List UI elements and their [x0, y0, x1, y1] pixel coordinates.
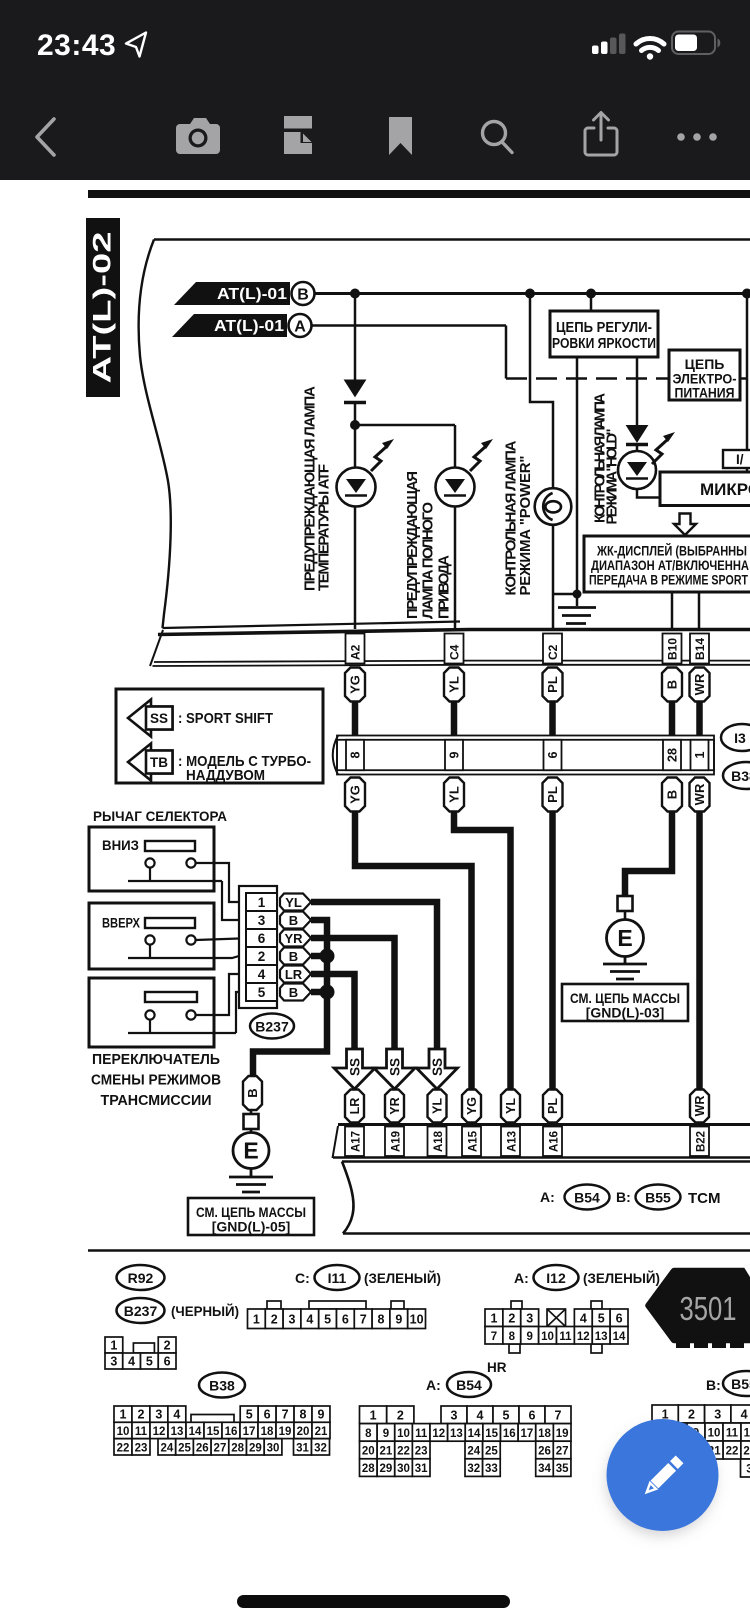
svg-text:SS: SS: [348, 1058, 363, 1076]
svg-text:ТРАНСМИССИИ: ТРАНСМИССИИ: [101, 1093, 212, 1109]
svg-text:YL: YL: [447, 676, 462, 693]
svg-text:ПЕРЕКЛЮЧАТЕЛЬ: ПЕРЕКЛЮЧАТЕЛЬ: [92, 1052, 220, 1068]
svg-text:ВНИЗ: ВНИЗ: [102, 838, 139, 853]
svg-text:12: 12: [432, 1428, 445, 1440]
svg-text:4: 4: [477, 1408, 484, 1422]
svg-text:SS: SS: [388, 1058, 403, 1076]
svg-text:YL: YL: [285, 895, 302, 910]
svg-text:8: 8: [365, 1428, 372, 1440]
svg-text:РЕЖИМА "HOLD": РЕЖИМА "HOLD": [605, 429, 621, 525]
svg-text:7: 7: [555, 1408, 562, 1422]
svg-text:34: 34: [538, 1463, 551, 1475]
svg-text:6: 6: [616, 1311, 623, 1325]
svg-text:22: 22: [726, 1446, 739, 1458]
svg-text:4: 4: [128, 1355, 135, 1369]
svg-text:YG: YG: [348, 675, 363, 694]
svg-text:AT(L)-01: AT(L)-01: [217, 286, 287, 303]
svg-text:2: 2: [258, 949, 266, 964]
svg-text:8: 8: [349, 751, 363, 758]
svg-text:YL: YL: [447, 786, 462, 803]
svg-text:6: 6: [258, 931, 266, 946]
svg-text:13: 13: [450, 1428, 463, 1440]
svg-text:A:: A:: [514, 1270, 529, 1286]
svg-text:3: 3: [258, 913, 266, 928]
svg-text:B237: B237: [255, 1019, 289, 1035]
svg-text:6: 6: [164, 1355, 171, 1369]
svg-text:YG: YG: [465, 1097, 479, 1115]
svg-text:B54: B54: [456, 1377, 482, 1393]
svg-text:4: 4: [580, 1311, 587, 1325]
svg-text:10: 10: [410, 1312, 424, 1326]
svg-text:I11: I11: [328, 1270, 347, 1286]
svg-text:23: 23: [743, 1446, 750, 1458]
svg-text:31: 31: [415, 1463, 428, 1475]
svg-text:LR: LR: [348, 1098, 362, 1115]
svg-text:28: 28: [231, 1442, 244, 1454]
svg-text:3: 3: [746, 1464, 750, 1476]
svg-text:B10: B10: [666, 638, 680, 660]
svg-text:18: 18: [538, 1428, 551, 1440]
svg-text:1: 1: [258, 895, 266, 910]
svg-text:2: 2: [688, 1408, 695, 1422]
svg-text:5: 5: [258, 985, 266, 1000]
svg-text:B237: B237: [124, 1303, 158, 1319]
svg-text:11: 11: [559, 1331, 572, 1343]
svg-text:B: B: [289, 913, 298, 928]
svg-text:3: 3: [714, 1408, 721, 1422]
svg-text:НАДДУВОМ: НАДДУВОМ: [186, 767, 265, 784]
svg-text:B22: B22: [696, 1131, 708, 1152]
svg-text:4: 4: [258, 967, 266, 982]
svg-text:2: 2: [271, 1312, 278, 1326]
svg-text:12: 12: [744, 1428, 750, 1440]
svg-text:5: 5: [324, 1312, 331, 1326]
svg-text:HR: HR: [487, 1360, 507, 1375]
svg-text:AT(L)-02: AT(L)-02: [89, 232, 117, 384]
svg-text:B14: B14: [693, 638, 707, 660]
svg-text:20: 20: [297, 1426, 310, 1438]
svg-text:13: 13: [171, 1426, 184, 1438]
svg-text:22: 22: [117, 1442, 130, 1454]
svg-text:B:: B:: [706, 1377, 721, 1393]
svg-text:AT(L)-01: AT(L)-01: [214, 318, 284, 335]
svg-text:30: 30: [267, 1442, 280, 1454]
svg-text:5: 5: [246, 1408, 253, 1422]
svg-text:22: 22: [397, 1446, 410, 1458]
svg-text:ПЕРЕДАЧА В РЕЖИМЕ SPORT: ПЕРЕДАЧА В РЕЖИМЕ SPORT: [589, 573, 749, 588]
svg-text:A2: A2: [349, 644, 363, 660]
svg-text:29: 29: [380, 1463, 393, 1475]
svg-text:24: 24: [467, 1446, 480, 1458]
svg-text:32: 32: [314, 1442, 327, 1454]
svg-text:[GND(L)-03]: [GND(L)-03]: [586, 1005, 665, 1021]
svg-text:10: 10: [708, 1428, 721, 1440]
svg-text:26: 26: [196, 1442, 209, 1454]
svg-text:B: B: [665, 790, 680, 799]
svg-text:5: 5: [146, 1355, 153, 1369]
svg-text:32: 32: [467, 1463, 480, 1475]
svg-text:6: 6: [529, 1408, 536, 1422]
svg-text:A17: A17: [351, 1131, 363, 1152]
svg-text:РЫЧАГ СЕЛЕКТОРА: РЫЧАГ СЕЛЕКТОРА: [93, 808, 227, 824]
svg-text:WR: WR: [692, 783, 707, 805]
svg-text:9: 9: [317, 1408, 324, 1422]
svg-text:A19: A19: [391, 1131, 403, 1152]
svg-text:C:: C:: [295, 1270, 310, 1286]
svg-text:2: 2: [508, 1311, 515, 1325]
svg-text:(ЗЕЛЕНЫЙ): (ЗЕЛЕНЫЙ): [583, 1271, 660, 1286]
svg-text:ВВЕРХ: ВВЕРХ: [102, 916, 140, 931]
svg-text:3: 3: [155, 1408, 162, 1422]
svg-text:12: 12: [153, 1426, 166, 1438]
svg-text:35: 35: [556, 1463, 569, 1475]
svg-text:YL: YL: [504, 1098, 518, 1114]
svg-text:LR: LR: [285, 967, 303, 982]
svg-text:9: 9: [448, 751, 462, 758]
svg-text:РОВКИ ЯРКОСТИ: РОВКИ ЯРКОСТИ: [552, 336, 656, 352]
svg-text:B: B: [245, 1088, 260, 1097]
svg-text:ЛАМПА ПОЛНОГО: ЛАМПА ПОЛНОГО: [420, 502, 437, 619]
svg-text:23:43: 23:43: [37, 29, 116, 62]
svg-text:3: 3: [526, 1311, 533, 1325]
svg-text:B: B: [289, 985, 298, 1000]
svg-text:21: 21: [315, 1426, 328, 1438]
svg-text:14: 14: [468, 1428, 481, 1440]
svg-text:SS: SS: [150, 711, 168, 726]
svg-text:WR: WR: [692, 673, 707, 695]
svg-text:25: 25: [485, 1446, 498, 1458]
svg-text:B55: B55: [731, 1376, 750, 1392]
svg-text:7: 7: [491, 1331, 497, 1343]
svg-text:20: 20: [362, 1446, 375, 1458]
svg-text:РЕЖИМА "POWER": РЕЖИМА "POWER": [517, 456, 534, 596]
svg-text:6: 6: [264, 1408, 271, 1422]
svg-text:A: A: [294, 319, 306, 336]
svg-text:B38: B38: [209, 1378, 235, 1394]
svg-text:B:: B:: [616, 1189, 631, 1205]
svg-text:ПРИВОДА: ПРИВОДА: [436, 555, 453, 619]
svg-text:13: 13: [595, 1331, 608, 1343]
svg-text:16: 16: [503, 1428, 516, 1440]
svg-text:R92: R92: [128, 1270, 154, 1286]
svg-text:24: 24: [160, 1442, 173, 1454]
svg-text:A16: A16: [549, 1131, 561, 1152]
svg-text:1: 1: [110, 1339, 117, 1353]
svg-text:ПРЕДУПРЕЖДАЮЩАЯ: ПРЕДУПРЕЖДАЮЩАЯ: [404, 471, 421, 619]
svg-text:YG: YG: [348, 785, 363, 804]
svg-text:СМЕНЫ РЕЖИМОВ: СМЕНЫ РЕЖИМОВ: [91, 1073, 221, 1089]
svg-text:(ЗЕЛЕНЫЙ): (ЗЕЛЕНЫЙ): [364, 1271, 441, 1286]
svg-text:4: 4: [306, 1312, 313, 1326]
svg-text:18: 18: [261, 1426, 274, 1438]
svg-text:30: 30: [397, 1463, 410, 1475]
svg-text:I12: I12: [546, 1270, 566, 1286]
svg-text:1: 1: [253, 1312, 260, 1326]
svg-text:25: 25: [178, 1442, 191, 1454]
svg-text:B38: B38: [731, 768, 750, 784]
svg-text:WR: WR: [693, 1096, 707, 1117]
svg-text:B54: B54: [574, 1190, 600, 1206]
svg-text:3: 3: [451, 1408, 458, 1422]
svg-text:: SPORT SHIFT: : SPORT SHIFT: [178, 710, 273, 727]
svg-text:[GND(L)-05]: [GND(L)-05]: [212, 1219, 291, 1235]
svg-text:7: 7: [360, 1312, 367, 1326]
svg-text:12: 12: [577, 1331, 590, 1343]
svg-text:A:: A:: [540, 1189, 555, 1205]
svg-text:ТВ: ТВ: [150, 755, 168, 770]
svg-text:17: 17: [521, 1428, 534, 1440]
svg-text:I/: I/: [736, 452, 744, 467]
svg-text:26: 26: [538, 1446, 551, 1458]
svg-text:1: 1: [490, 1311, 497, 1325]
svg-text:11: 11: [726, 1428, 739, 1440]
svg-text:4: 4: [741, 1408, 748, 1422]
svg-text:TCM: TCM: [688, 1190, 721, 1207]
svg-text:11: 11: [135, 1426, 148, 1438]
svg-text:28: 28: [666, 748, 680, 762]
svg-text:PL: PL: [546, 1098, 560, 1114]
svg-text:YR: YR: [284, 931, 303, 946]
svg-text:15: 15: [207, 1426, 220, 1438]
svg-text:E: E: [243, 1138, 258, 1164]
svg-text:23: 23: [415, 1446, 428, 1458]
svg-text:(ЧЕРНЫЙ): (ЧЕРНЫЙ): [171, 1304, 239, 1319]
svg-text:6: 6: [342, 1312, 349, 1326]
svg-text:8: 8: [378, 1312, 385, 1326]
svg-text:8: 8: [300, 1408, 307, 1422]
svg-text:27: 27: [556, 1446, 569, 1458]
svg-text:A15: A15: [468, 1130, 480, 1152]
svg-text:9: 9: [383, 1428, 389, 1440]
svg-text:4: 4: [173, 1408, 180, 1422]
svg-text:9: 9: [395, 1312, 402, 1326]
svg-text:5: 5: [598, 1311, 605, 1325]
svg-text:ЦЕПЬ РЕГУЛИ-: ЦЕПЬ РЕГУЛИ-: [556, 320, 652, 336]
svg-text:16: 16: [225, 1426, 238, 1438]
svg-text:28: 28: [362, 1463, 375, 1475]
svg-text:1: 1: [119, 1408, 126, 1422]
svg-text:YR: YR: [388, 1097, 402, 1114]
svg-text:33: 33: [485, 1463, 498, 1475]
svg-text:23: 23: [135, 1442, 148, 1454]
svg-text:10: 10: [397, 1428, 410, 1440]
svg-text:E: E: [617, 925, 632, 951]
svg-text:31: 31: [296, 1442, 309, 1454]
svg-text:PL: PL: [545, 786, 560, 803]
svg-text:10: 10: [117, 1426, 130, 1438]
svg-text:B: B: [289, 949, 298, 964]
svg-text:PL: PL: [545, 676, 560, 693]
svg-text:1: 1: [693, 751, 707, 758]
svg-text:2: 2: [164, 1339, 171, 1353]
svg-text:8: 8: [509, 1331, 516, 1343]
svg-text:B55: B55: [645, 1190, 671, 1206]
svg-text:МИКРОК: МИКРОК: [700, 480, 750, 499]
svg-text:14: 14: [613, 1331, 626, 1343]
svg-text:2: 2: [397, 1408, 404, 1422]
svg-text:ДИАПАЗОН АТ/ВКЛЮЧЕННА: ДИАПАЗОН АТ/ВКЛЮЧЕННА: [591, 558, 749, 573]
svg-text:21: 21: [380, 1446, 393, 1458]
svg-text:A:: A:: [426, 1377, 441, 1393]
svg-text:SS: SS: [430, 1058, 445, 1076]
svg-text:7: 7: [282, 1408, 289, 1422]
svg-text:14: 14: [189, 1426, 202, 1438]
svg-text:A13: A13: [507, 1131, 519, 1152]
svg-text:19: 19: [556, 1428, 569, 1440]
svg-text:I3: I3: [734, 730, 746, 746]
svg-text:17: 17: [243, 1426, 256, 1438]
svg-text:5: 5: [503, 1408, 510, 1422]
svg-text:A18: A18: [433, 1130, 445, 1152]
svg-text:1: 1: [370, 1408, 377, 1422]
svg-text:ЖК-ДИСПЛЕЙ (ВЫБРАННЫ: ЖК-ДИСПЛЕЙ (ВЫБРАННЫ: [596, 544, 747, 559]
svg-text:6: 6: [546, 751, 560, 758]
svg-text:ТЕМПЕРАТУРЫ ATF: ТЕМПЕРАТУРЫ ATF: [316, 464, 333, 591]
svg-text:B: B: [665, 680, 680, 689]
svg-text:3: 3: [110, 1355, 117, 1369]
svg-text:15: 15: [485, 1428, 498, 1440]
svg-text:29: 29: [249, 1442, 262, 1454]
svg-text:3: 3: [289, 1312, 296, 1326]
svg-text:11: 11: [415, 1428, 428, 1440]
svg-text:3501: 3501: [680, 1290, 737, 1327]
svg-text:YL: YL: [431, 1098, 445, 1114]
svg-text:ПИТАНИЯ: ПИТАНИЯ: [675, 385, 735, 401]
svg-text:2: 2: [137, 1408, 144, 1422]
svg-text:B: B: [297, 287, 309, 304]
svg-text:9: 9: [526, 1331, 532, 1343]
svg-text:10: 10: [541, 1331, 554, 1343]
svg-text:C4: C4: [448, 644, 462, 660]
svg-text:C2: C2: [546, 644, 560, 660]
svg-text:27: 27: [214, 1442, 227, 1454]
svg-text:19: 19: [279, 1426, 292, 1438]
